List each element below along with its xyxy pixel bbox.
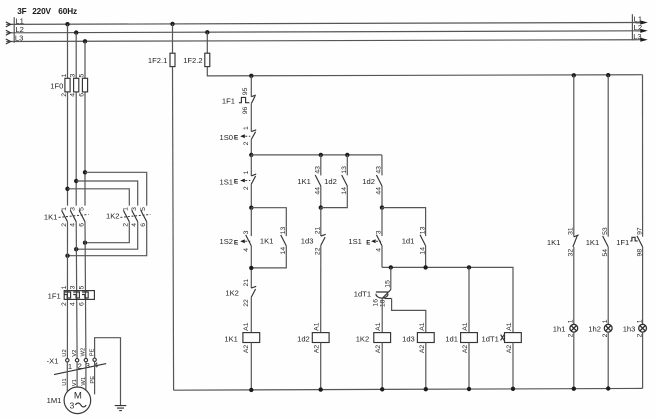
svg-text:A1: A1 [419,322,426,331]
contactor 1K1 pole3 blade [79,210,85,221]
svg-text:5: 5 [78,74,85,78]
svg-text:13: 13 [341,166,348,174]
contact 1K1 13-14 blade [281,235,287,246]
svg-text:5: 5 [140,207,147,211]
svg-text:A2: A2 [462,345,469,354]
svg-text:4: 4 [70,93,77,97]
svg-text:3: 3 [375,230,382,234]
svg-text:A1: A1 [243,322,250,331]
contactor 1K2 pole1 blade [123,210,129,221]
node right entry tick [631,14,633,40]
node L2 left chevron [6,30,11,35]
wire coil 1K1 to bus [250,343,252,390]
wire 1d2 43-44 to node [381,186,383,208]
node rail row2 [249,206,253,210]
svg-text:2: 2 [243,186,250,190]
svg-text:1: 1 [568,319,575,323]
svg-text:3: 3 [70,74,77,78]
node L1 left chevron [6,22,11,27]
fuse 1F2.2 wire upper [206,32,208,53]
svg-text:1K1: 1K1 [297,177,311,186]
svg-text:3: 3 [70,285,77,289]
node bus lamp1 [572,73,576,77]
fuse 1F2.1 wire upper [172,24,174,53]
node bus lamp2 [606,73,610,77]
svg-text:A2: A2 [243,345,250,354]
pushbutton 1S1b actuator arrow [371,239,376,243]
overload 1F1 element1 [64,292,70,298]
svg-text:4: 4 [131,223,138,227]
fuse 1F0 pole3 [82,78,87,92]
svg-text:14: 14 [341,187,348,195]
node tap L1 power [65,22,69,26]
contact 1F1 97-98 hump [630,237,637,241]
wire motor lead W [85,362,87,390]
wire phase1 lower [66,222,68,359]
svg-text:1d2: 1d2 [297,334,310,343]
wire branch bus y155 [251,154,381,156]
node branch phase3 to 1K2 [83,170,87,174]
wire L2 [6,31,641,33]
contact 1K1 43-44 blade [315,175,321,186]
wire coil 1K2 to bus [381,343,383,390]
wire branch 1K1 43-44 [320,155,322,176]
svg-text:5: 5 [78,207,85,211]
wire 1S1b to bus267 [381,246,383,268]
svg-text:1S1: 1S1 [220,177,234,186]
wire bus267 to coil 1d1 [468,267,470,332]
contact 1d3 21-22 stem [320,208,322,237]
svg-text:1K2: 1K2 [225,289,239,298]
terminal X1:3 circle [84,358,87,361]
contact 1K1 53-54 blade [603,236,609,247]
svg-text:5: 5 [79,285,86,289]
svg-text:W2: W2 [81,348,87,357]
svg-text:1h3: 1h3 [623,324,636,333]
contact 1K1 31-32 blade [573,235,578,247]
svg-text:3: 3 [70,400,75,410]
svg-text:4: 4 [375,248,382,252]
wire motor lead PE [94,362,96,395]
svg-text:1F2.2: 1F2.2 [183,56,202,65]
svg-text:A1: A1 [462,322,469,331]
svg-text:E: E [234,134,239,141]
svg-text:13: 13 [280,227,287,235]
node tap L2 fuse 1F2.2 [205,30,209,34]
svg-text:1d1: 1d1 [445,334,458,343]
pushbutton 1S1b blade [376,235,382,246]
contactor 1K2 pole3 blade [141,210,147,221]
node rail branch row1 [249,153,253,157]
svg-text:21: 21 [243,279,250,287]
svg-text:6: 6 [140,223,147,227]
contact 1d3 21-22 tick [321,234,326,236]
svg-text:1F1: 1F1 [48,291,61,300]
wire L1 [6,23,641,25]
coil 1d2 body [312,333,329,343]
svg-text:A2: A2 [506,345,513,354]
node L3 left chevron [6,39,11,44]
wire lamp2 bottom [607,332,609,388]
node crossover phase1 [65,254,69,258]
contactor 1K1 pole1 blade [62,210,68,221]
svg-text:1d1: 1d1 [402,237,415,246]
node L2 right arrow [640,29,648,33]
timer 18 contact bar [385,298,392,300]
svg-text:4: 4 [243,248,250,252]
wire 1S2 to node [250,246,252,288]
pushbutton 1S2 actuator arrow [240,239,245,243]
svg-text:6: 6 [79,302,86,306]
svg-text:4: 4 [70,223,77,227]
svg-text:A2: A2 [375,345,382,354]
wire bus y267 [382,267,513,332]
wire lamp3 bottom [642,332,644,388]
svg-text:A1: A1 [314,322,321,331]
ground symbol [115,406,127,411]
svg-text:2: 2 [61,93,68,97]
svg-text:4: 4 [70,302,77,306]
motor 1M1 tilde [75,403,86,407]
lamp 1h2 [604,324,612,332]
wire L3 [6,40,641,42]
wire 1S1 to node [250,184,252,208]
wire rail to 1S1 [250,155,252,176]
wire branch 1d2 13-14 [346,155,348,176]
coil 1K2 body [374,333,391,343]
node crossover phase3 [83,241,87,245]
svg-text:A2: A2 [419,345,426,354]
svg-text:2: 2 [61,302,68,306]
svg-text:1: 1 [243,126,250,130]
wire coil 1d3 to bus [425,343,427,390]
coil 1dT1 body [505,333,522,343]
svg-text:1: 1 [602,319,609,323]
fuse 1F2.1 body [170,53,175,66]
wire 1K2 feed upper outer [85,172,147,205]
wire loop 1K1 13-14 top [251,208,286,236]
wire node to 1d2 13-14 bottom [321,186,348,208]
svg-text:1: 1 [61,285,68,289]
node bus lamp2 bottom [606,386,610,390]
wire 1K2 out crossover to phase3 [85,222,129,243]
svg-text:22: 22 [243,299,250,307]
pushbutton 1S1 actuator arrow [240,179,245,183]
node bus 1K1 coil [249,388,253,392]
wire 1K2 out middle to phase2 [76,222,138,250]
contact 1d3 21-22 blade [321,237,325,245]
svg-text:1K1: 1K1 [224,334,238,343]
svg-text:1: 1 [61,207,68,211]
wire 18 to coil 1d3 [392,299,426,333]
svg-text:3: 3 [243,230,250,234]
svg-text:1: 1 [243,170,250,174]
svg-text:1d3: 1d3 [402,334,415,343]
svg-text:E: E [234,179,239,186]
svg-text:3: 3 [131,207,138,211]
wire lamp3 mid [642,247,644,324]
svg-text:1: 1 [636,319,643,323]
svg-text:3F220V60Hz: 3F220V60Hz [17,7,77,16]
contact 1F1 95-96 tick [251,95,256,97]
wire 1F1 to 1S0 [250,103,252,131]
wire 1K2 contact to coil 1K1 [250,297,252,333]
overload 1F1 element3 [82,292,88,298]
wire coil 1d2 to bus [320,343,322,390]
svg-text:95: 95 [242,87,249,95]
wire PE up from X1:4 [95,338,121,406]
svg-text:1S1: 1S1 [348,237,362,246]
svg-text:E: E [234,240,239,247]
svg-text:L3: L3 [633,32,641,41]
node 1d2 13-14 top [345,153,349,157]
node bus to rail [249,74,253,78]
node bus 1d2 coil [319,387,323,391]
contact 1K1 31-32 tick [574,235,579,237]
wire loop 1d1 13-14 top [382,208,426,237]
node crossover phase2 [74,247,78,251]
wire loop 1K1 13-14 bottom [251,246,286,268]
timer contact 1dT1 cup [376,292,388,298]
terminal X1:2 circle [75,359,78,362]
wire motor lead V [76,362,78,387]
svg-text:21: 21 [315,227,322,235]
wire phase3 lower [84,222,87,359]
wire lamp3 feed [642,75,644,237]
svg-text:13: 13 [419,226,426,234]
contactor 1K2 pole2 blade [132,210,138,221]
svg-text:1F1: 1F1 [222,97,235,106]
wire lamp1 bottom [573,332,575,389]
node branch phase2 to 1K2 [74,179,78,183]
contactor 1K2 link dashes [120,214,150,217]
node bus 1d1 coil [467,387,471,391]
wire coil 1dT1 to bus [512,343,514,389]
svg-text:96: 96 [242,106,249,114]
node bus 1K2 coil [380,387,384,391]
fuse 1F0 pole1 [65,78,70,92]
wire 1K2 out crossover to phase1 [68,222,147,256]
fuse 1F2.2 body [205,53,210,66]
wire control bus top [207,67,642,76]
contactor 1K1 pole2 blade [70,210,76,221]
terminal X1:4 circle [93,358,96,361]
pushbutton 1S1 tick [251,174,256,176]
pushbutton 1S0 tick [251,130,256,132]
node 1d2 43-44 bottom [380,205,384,209]
svg-text:A2: A2 [314,345,321,354]
node L1 right arrow [640,20,648,24]
contact 1d2 13-14 blade [342,175,348,186]
svg-text:1: 1 [123,207,130,211]
coil 1K1 body [243,333,260,343]
node bus 1dT1 coil [511,387,515,391]
svg-text:1: 1 [61,74,68,78]
pushbutton 1S2 blade [246,235,252,246]
svg-text:1F2.1: 1F2.1 [148,56,167,65]
wire 16 to coil 1K2 [381,298,383,332]
svg-text:1M1: 1M1 [47,396,62,405]
wire 1K2 feed upper inner [68,189,130,206]
pushbutton 1S1b actuator dashes [372,240,381,242]
node L3 right arrow [640,38,648,42]
svg-text:6: 6 [78,93,85,97]
svg-text:1S0: 1S0 [220,133,234,142]
svg-text:A1: A1 [375,322,382,331]
node 1K1 43-44 top [319,153,323,157]
svg-text:15: 15 [385,280,392,288]
svg-text:1K1: 1K1 [586,238,600,247]
wire 1F2.1 return rail [173,67,174,391]
coil 1d1 body [461,333,478,343]
coil 1d3 body [417,333,434,343]
svg-text:53: 53 [602,227,609,235]
motor 1M1 circle [64,387,91,414]
svg-text:1dT1: 1dT1 [354,290,371,299]
node branch phase1 to 1K2 [65,187,69,191]
wire lamp1 feed [573,75,575,236]
pushbutton 1S0 actuator dashes [242,135,251,137]
svg-text:1K1: 1K1 [260,237,274,246]
contact 1F1 95-96 blade [251,96,255,103]
svg-text:31: 31 [568,227,575,235]
svg-text:L2: L2 [634,23,642,32]
pushbutton 1S0 actuator arrow [240,134,245,138]
node bus lamp1 bottom [572,387,576,391]
svg-text:1K1: 1K1 [44,212,58,221]
svg-text:43: 43 [376,166,383,174]
contactor 1K1 link dashes [59,214,89,217]
coil 1dT1 delay mark [501,335,505,341]
wire phase2 upper [75,33,77,206]
svg-text:1F0: 1F0 [50,82,63,91]
contact 1F1 97-98 blade [637,236,643,247]
pushbutton 1S1 blade [251,176,255,184]
svg-text:1K1: 1K1 [547,238,561,247]
svg-text:U2: U2 [62,349,68,356]
wire lamp1 mid [573,247,575,324]
node tap L2 power [74,30,78,34]
svg-text:V2: V2 [72,350,78,357]
wire 1d1 13-14 to node [425,246,427,268]
wire coil 1d1 to bus [468,343,470,390]
wire 1K2 feed upper middle [76,181,138,206]
node 43-44 bottom [319,205,323,209]
lamp 1h3 [639,324,647,332]
svg-text:M: M [74,391,82,402]
node bus 1d3 coil [424,387,428,391]
timer contact 1dT1 stem 15 [390,267,392,289]
svg-text:1: 1 [68,362,72,371]
svg-text:18: 18 [380,299,387,307]
svg-text:1d3: 1d3 [301,237,314,246]
node timer top [389,265,393,269]
contact 1K2 21-22 tick [251,286,256,288]
svg-text:-X1: -X1 [47,356,59,365]
svg-text:2: 2 [243,141,250,145]
svg-text:1d2: 1d2 [362,177,375,186]
node tap L3 power [83,39,87,43]
pushbutton 1S1b stem [381,208,383,237]
fuse 1F0 pole2 [74,78,79,92]
wire phase2 lower [75,222,78,359]
wire lamp2 feed [607,75,609,237]
svg-text:1S2: 1S2 [220,237,234,246]
overload relay 1F1 box [64,291,94,300]
node left entry tick [13,17,15,43]
contact 1F1 95-96 thermal hump [239,97,250,102]
svg-text:1dT1: 1dT1 [482,334,499,343]
svg-text:1h2: 1h2 [588,324,601,333]
wire 1K1 43-44 to node [320,186,322,208]
svg-text:43: 43 [315,166,322,174]
svg-text:2: 2 [61,223,68,227]
node 1d1 coil top [467,265,471,269]
svg-text:3: 3 [70,207,77,211]
svg-text:L3: L3 [15,34,23,43]
svg-text:2: 2 [123,223,130,227]
svg-text:1d2: 1d2 [324,177,337,186]
wire phase3 upper [84,41,86,205]
terminal X1:1 circle [66,359,69,362]
pushbutton 1S1 actuator dashes [242,180,251,182]
svg-text:E: E [366,239,370,246]
svg-text:1K2: 1K2 [106,212,120,221]
contact 1K2 21-22 blade [251,289,255,297]
contact 1d2 43-44 blade [376,175,382,186]
node rail row3 [249,266,253,270]
wire motor lead U [66,362,68,391]
wire branch 1d2 43-44 [381,155,383,176]
svg-text:1F1: 1F1 [616,238,629,247]
pushbutton 1S0 blade [251,132,255,140]
wire bottom bus [174,388,643,390]
overload 1F1 element2 [73,292,79,298]
svg-text:6: 6 [78,223,85,227]
svg-text:1h1: 1h1 [553,324,566,333]
contact 1d1 13-14 blade [420,235,426,246]
svg-text:A1: A1 [506,322,513,331]
wire phase1 upper [67,24,69,205]
wire lamp2 mid [607,247,609,324]
svg-text:PE: PE [90,376,96,384]
lamp 1h1 [570,324,578,332]
timer contact 1dT1 blade [382,290,391,299]
pushbutton 1S2 actuator dashes [242,240,251,242]
pushbutton 1S2 stem [250,208,252,236]
wire 1S0 to node [250,139,252,155]
wire 1d3 contact to coil 1d2 [320,245,322,332]
wire rail to 1F1 contact [250,76,252,97]
node 1d1 13-14 bottom [423,265,427,269]
node tap L1 fuse 1F2.1 [170,22,174,26]
svg-text:1K2: 1K2 [356,334,370,343]
cable slash [54,364,106,375]
svg-text:97: 97 [636,227,643,235]
